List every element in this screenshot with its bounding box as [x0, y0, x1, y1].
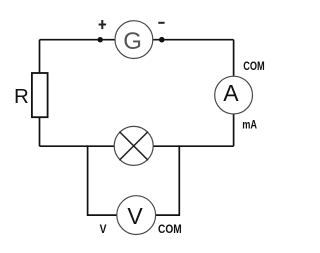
svg-text:G: G — [123, 28, 142, 55]
svg-text:A: A — [223, 80, 239, 106]
svg-text:COM: COM — [243, 61, 265, 73]
svg-text:V: V — [127, 203, 143, 229]
svg-text:R: R — [14, 85, 29, 108]
svg-text:mA: mA — [242, 120, 257, 132]
svg-text:V: V — [100, 224, 107, 236]
svg-text:COM: COM — [158, 224, 182, 236]
